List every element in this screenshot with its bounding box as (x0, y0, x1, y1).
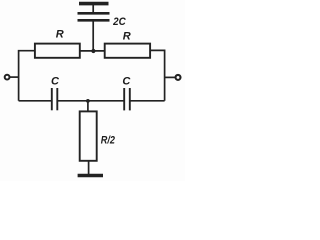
ground (top) (79, 2, 109, 6)
wire input terminal (10, 76, 19, 78)
node B junction (86, 99, 90, 103)
wire C1 to C2 (58, 100, 124, 102)
wire bottom left (19, 100, 51, 102)
svg-text:R/2: R/2 (101, 134, 115, 146)
node A junction (91, 49, 95, 53)
svg-text:C: C (122, 75, 131, 87)
svg-text:R: R (56, 29, 64, 41)
wire right rail top (150, 50, 165, 100)
wire 2C to node A (92, 21, 94, 51)
ground (bottom) (78, 174, 103, 177)
wire R1 to R2 (80, 50, 105, 52)
wire top ground to 2C (92, 5, 94, 12)
wire C2 to right rail (131, 100, 165, 102)
wire left rail top (19, 51, 35, 101)
output terminal circle (176, 75, 181, 80)
capacitor 2C (78, 13, 110, 20)
resistor R1 (35, 44, 80, 58)
capacitor C2 (124, 88, 130, 110)
wire output terminal (165, 76, 175, 78)
resistor R2 (105, 44, 150, 58)
wire node B to R/2 (87, 101, 89, 112)
input terminal circle (5, 75, 10, 80)
capacitor C1 (52, 88, 58, 110)
svg-text:2C: 2C (112, 16, 126, 28)
wire R/2 to ground (88, 161, 90, 174)
svg-text:C: C (51, 75, 60, 87)
resistor R3 R/2 (80, 111, 97, 160)
svg-text:R: R (123, 31, 131, 43)
